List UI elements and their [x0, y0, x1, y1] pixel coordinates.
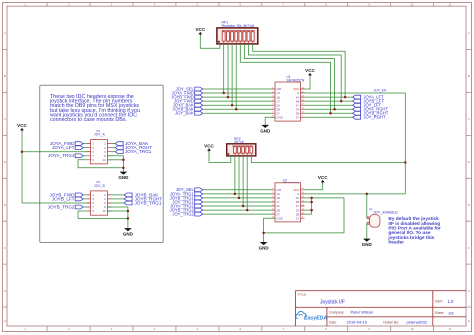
svg-text:VCC: VCC	[204, 144, 214, 149]
junction RP1/U1 right 0	[329, 112, 332, 115]
wire P1 pin9 loop to GND	[78, 160, 123, 168]
wire P1 JOYA_TRG1	[112, 151, 116, 153]
junction RP1/U1 right 2	[340, 100, 343, 103]
junction VCC rail / P1 branch	[21, 150, 24, 153]
ground U2	[259, 242, 270, 251]
net flag JOYA_LFT	[353, 95, 384, 100]
svg-text:peterw8102: peterw8102	[407, 320, 429, 325]
wire RP2 pin2 pull-up	[234, 156, 236, 194]
wire P1 JOYA_LFT	[83, 147, 86, 149]
wire P1 pin8 to GND rail	[108, 156, 124, 172]
junction U2 tie b	[310, 201, 313, 204]
IC U2 SN74F257N multiplexer	[271, 178, 305, 222]
svg-text:D: D	[468, 160, 470, 164]
wire U1 JOYB_FWD	[203, 96, 271, 98]
wire U1 JOY_BAK	[203, 112, 271, 114]
net flag JOYB_FWD	[171, 95, 202, 100]
wire P1 JOYA_FWD	[83, 143, 86, 145]
wire U2 JOY_TRG1	[203, 201, 271, 203]
title block	[295, 291, 466, 326]
wire U2 unused input row2	[305, 197, 312, 199]
wire U1 JOYB_RGHT	[305, 112, 353, 114]
wire RP2 pin3 pull-up	[238, 156, 240, 198]
wire U1 GND lead	[265, 117, 275, 125]
svg-text:connectors to case mounts DBs.: connectors to case mounts DBs.	[50, 117, 127, 123]
junction RP1/U1 JOYA_BAK	[231, 104, 234, 107]
wire RP1 pin4 pull-up	[231, 44, 233, 105]
wire RP1 pin9 pull-up	[253, 44, 345, 97]
junction P2 GND rail b	[127, 217, 129, 220]
svg-text:E: E	[4, 203, 6, 207]
net flag JOY_SEL	[176, 86, 203, 91]
wire JOY_EN U2 OE	[305, 193, 406, 195]
wire U1 JOY_RGHT	[305, 116, 353, 118]
wire U2 JOYB_TRG2	[203, 209, 271, 211]
svg-text:Sheet:: Sheet:	[435, 311, 445, 315]
net flag JOYB_BAK	[124, 192, 159, 197]
junction RP2/U2 JOYA_TRG1	[234, 193, 237, 196]
svg-text:11: 11	[449, 327, 452, 331]
wire U1 JOY_LFT	[305, 104, 353, 106]
junction U2 GND rail	[262, 232, 265, 235]
net flag JOYB_TRG1	[124, 200, 162, 205]
net flag JOY_RGHT	[353, 115, 386, 120]
EasyEDA logo	[296, 311, 306, 318]
wire U1 JOYA_LFT	[305, 96, 353, 98]
wire P2 JOYB_LFT	[83, 198, 86, 200]
wire RP2 common to VCC	[209, 152, 231, 162]
svg-text:VCC: VCC	[318, 175, 328, 180]
svg-text:H: H	[4, 319, 6, 323]
net flag JOY_SEL	[176, 187, 203, 192]
note text: JOY_ENABLE comment	[387, 216, 441, 246]
svg-text:JOYA_LFT: JOYA_LFT	[52, 145, 75, 150]
connector P1 JOY_A	[87, 129, 112, 164]
junction U2 tie c	[310, 209, 313, 212]
svg-text:JOY_RGHT: JOY_RGHT	[363, 115, 386, 120]
svg-text:1.0: 1.0	[448, 299, 454, 304]
svg-text:JOYB_LFT: JOYB_LFT	[52, 196, 75, 201]
junction RP1/U1 JOYB_FWD	[227, 96, 230, 99]
wire U2 JOYB_TRG1	[203, 197, 271, 199]
svg-text:GND: GND	[276, 216, 282, 220]
wire P2 JOYB_RGHT	[112, 198, 125, 200]
wire U2 JOYA_TRG2	[203, 205, 271, 207]
svg-text:TITLE:: TITLE:	[298, 293, 307, 297]
wire P1 JOYA_TRG2	[83, 155, 86, 157]
svg-text:GND: GND	[118, 175, 129, 180]
wire U1 JOYA_FWD	[203, 92, 271, 94]
wire U1 JOYA_BAK	[203, 104, 271, 106]
wire JOY_EN vertical	[404, 93, 406, 194]
svg-text:GND: GND	[123, 232, 134, 237]
net flag JOYB_TRG2	[48, 204, 84, 209]
junction JOY_EN / JP	[366, 193, 369, 196]
note text: IDC headers comment	[49, 94, 140, 123]
wire P2 pin10 to GND rail	[108, 210, 128, 212]
svg-text:JOY_B: JOY_B	[94, 184, 105, 188]
net flag JOYA_TRG2	[48, 153, 83, 158]
svg-text:G: G	[468, 289, 470, 293]
ground U1	[260, 125, 271, 134]
net flag JOYA_LFT	[52, 145, 83, 150]
net flag JOY_FWD	[174, 99, 203, 104]
svg-text:G: G	[4, 289, 6, 293]
junction RP1/U1 JOYB_BAK	[235, 108, 238, 111]
wire JOY_EN U1 OE	[305, 92, 406, 94]
svg-text:E: E	[468, 203, 470, 207]
wire RP1 pin3 pull-up	[227, 44, 229, 97]
svg-text:GND: GND	[362, 242, 373, 247]
net flag JOY_BAK	[175, 111, 203, 116]
junction RP1/U1 JOYA_FWD	[222, 92, 225, 95]
net flag JOYB_RGHT	[353, 111, 389, 116]
svg-text:VCC: VCC	[17, 123, 27, 128]
svg-text:JOY_A: JOY_A	[94, 133, 105, 137]
net flag JOYA_BAK	[173, 103, 203, 108]
svg-text:JOYB_TRG1: JOYB_TRG1	[135, 200, 162, 205]
wire P2 JOYB_FWD	[83, 194, 86, 196]
net flag JOYB_RGHT	[124, 196, 162, 201]
net flag JOYA_BAK	[115, 141, 149, 146]
svg-text:B: B	[4, 74, 6, 78]
svg-text:3Y: 3Y	[296, 116, 300, 120]
wire U2 unused input row6	[305, 213, 312, 215]
net flag JOYA_TRG1	[115, 149, 152, 154]
net flag JOYA_TRG1	[170, 191, 203, 196]
svg-text:10: 10	[103, 209, 107, 213]
svg-text:Company:: Company:	[329, 311, 345, 315]
svg-text:JOY_EN: JOY_EN	[374, 89, 387, 93]
junction P2 GND rail a	[127, 210, 129, 213]
svg-text:EasyEDA: EasyEDA	[304, 316, 327, 322]
svg-text:10: 10	[411, 327, 415, 331]
wire RP1 pin7 pull-up	[244, 44, 334, 109]
svg-text:VCC: VCC	[195, 27, 205, 32]
svg-text:JOYA_TRG1: JOYA_TRG1	[125, 149, 152, 154]
wire P1 pin10 to GND rail	[108, 159, 124, 161]
wire U2 unused tie vertical	[311, 198, 313, 214]
wire RP2 pin4 pull-up	[242, 156, 244, 206]
svg-text:JOY_ENABLE: JOY_ENABLE	[373, 210, 398, 215]
wire P1 JOYA_RGHT	[112, 147, 116, 149]
svg-text:JOYA_TRG2: JOYA_TRG2	[48, 153, 75, 158]
junction RP2/U2 JOYB_TRG2	[246, 209, 249, 212]
svg-text:Peter Wilson: Peter Wilson	[351, 310, 374, 315]
note box: IDC headers comment	[40, 85, 164, 242]
svg-text:B: B	[468, 74, 470, 78]
svg-text:3Y: 3Y	[296, 216, 300, 220]
svg-text:JOY_BAK: JOY_BAK	[175, 111, 194, 116]
wire U2 JOY_SEL	[203, 189, 271, 191]
svg-text:D: D	[4, 160, 6, 164]
junction P1 GND rail b	[122, 167, 125, 170]
power VCC U1	[305, 68, 315, 77]
wire P2 pin9 loop to GND	[78, 211, 128, 218]
svg-text:2019-04-19: 2019-04-19	[347, 320, 368, 325]
svg-text:GND: GND	[260, 129, 271, 134]
svg-text:C: C	[468, 117, 470, 121]
net flag JOYA_FWD	[50, 141, 83, 146]
svg-text:Drawn By:: Drawn By:	[383, 320, 399, 324]
wire U1 JOY_SEL	[203, 88, 271, 90]
wire U2 JOYA_TRG1	[203, 193, 271, 195]
wire RP1 pin2 pull-up	[223, 44, 225, 93]
svg-text:1/6: 1/6	[448, 310, 454, 315]
junction JOY_EN / RP2	[404, 161, 407, 164]
net flag JOYB_FWD	[49, 192, 83, 197]
net flag JOYA_FWD	[172, 90, 203, 95]
svg-text:C: C	[4, 117, 6, 121]
wire U1 JOYA_RGHT	[305, 108, 353, 110]
resistor network RP2 4K7x5	[227, 137, 256, 156]
junction RP2/U2 JOYB_TRG1	[238, 197, 241, 200]
wire JP top	[366, 194, 368, 218]
power VCC left rail	[17, 123, 27, 132]
wire U2 unused input row5	[305, 209, 312, 211]
wire VCC rail to P2 pin5	[22, 202, 91, 204]
wire U1 JOYB_LFT	[305, 100, 353, 102]
wire P2 JOYB_TRG1	[112, 202, 125, 204]
net flag JOY_TRG2	[172, 212, 202, 217]
svg-text:GND: GND	[276, 116, 282, 120]
wire U1 VCC	[305, 77, 311, 90]
svg-text:header: header	[388, 240, 404, 246]
resistor network RP1 Resistor SIL 4K7x8	[217, 20, 258, 44]
power VCC RP2	[204, 144, 214, 153]
junction RP1/U1 right 1	[333, 108, 336, 111]
wire U2 JOY_TRG2	[203, 213, 271, 215]
IC U1 SN74F257N multiplexer	[271, 75, 305, 121]
svg-text:GND: GND	[259, 246, 270, 251]
net flag JOYA_RGHT	[115, 145, 152, 150]
wire VCC rail to P1 pin5	[22, 151, 91, 153]
wire RP2 pin5 pull-up	[246, 156, 248, 210]
wire U2 VCC	[305, 184, 323, 190]
svg-text:A: A	[4, 31, 6, 35]
wire U2 unused tie loop	[264, 198, 344, 233]
power VCC U2	[318, 175, 328, 184]
ground JP	[362, 239, 373, 248]
connector P2 JOY_B	[87, 180, 112, 215]
svg-text:11: 11	[449, 3, 452, 7]
wire VCC rail vertical	[21, 132, 23, 204]
net flag JOYB_LFT	[52, 196, 83, 201]
wire U2 unused input row3	[305, 201, 312, 203]
wire P2 pin8 to GND rail	[108, 207, 128, 228]
wire P2 JOYB_BAK	[112, 194, 125, 196]
junction RP2/U2 JOYA_TRG2	[242, 205, 245, 208]
net flag JOYB_LFT	[353, 99, 385, 104]
wire RP1 common to VCC	[200, 36, 220, 49]
svg-text:A: A	[468, 31, 470, 35]
wire U2 GND lead	[264, 218, 275, 242]
net flag JOYB_BAK	[172, 107, 202, 112]
wire JP bottom	[366, 223, 368, 238]
power VCC RP1	[195, 27, 205, 36]
net flag JOYB_TRG1	[170, 195, 203, 200]
ground P1	[118, 172, 129, 181]
net flag JOYA_TRG2	[170, 203, 203, 208]
wire RP1 pin6 pull-up	[240, 44, 330, 113]
svg-text:10: 10	[411, 3, 415, 7]
jumper P3	[367, 215, 380, 228]
wire RP1 pin5 pull-up	[235, 44, 237, 109]
wire U1 JOY_FWD	[203, 100, 271, 102]
wire P2 JOYB_TRG2	[83, 206, 86, 208]
junction P1 GND rail a	[122, 159, 125, 162]
svg-text:Date:: Date:	[329, 320, 337, 324]
svg-text:H: H	[468, 319, 470, 323]
svg-text:JOYB_TRG2: JOYB_TRG2	[48, 204, 75, 209]
wire RP1 pin8 pull-up	[249, 44, 342, 101]
svg-text:10: 10	[103, 158, 107, 162]
net flag JOY_TRG1	[172, 199, 202, 204]
svg-text:F: F	[4, 246, 6, 250]
svg-text:F: F	[468, 246, 470, 250]
wire P1 JOYA_BAK	[112, 143, 116, 145]
svg-text:JOY_TRG2: JOY_TRG2	[172, 212, 194, 217]
net flag JOY_LFT	[353, 103, 382, 108]
svg-text:VCC: VCC	[305, 68, 315, 73]
wire U1 JOYB_BAK	[203, 108, 271, 110]
wire RP2 pin6 to JOY_EN	[251, 156, 405, 163]
junction RP1/U1 right 3	[344, 96, 347, 99]
ground P2	[123, 228, 134, 237]
net flag JOYB_TRG2	[170, 208, 203, 213]
svg-text:Joystick I/F: Joystick I/F	[320, 299, 345, 305]
junction U2 tie a	[310, 197, 313, 200]
net flag JOYA_RGHT	[353, 107, 389, 112]
svg-text:REV:: REV:	[435, 300, 443, 304]
